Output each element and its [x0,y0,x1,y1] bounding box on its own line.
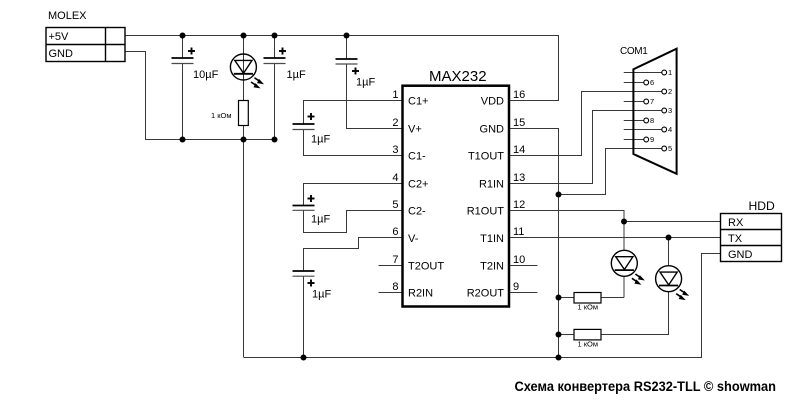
svg-text:2: 2 [668,87,672,96]
svg-text:GND: GND [480,124,505,136]
svg-text:11: 11 [513,226,524,238]
svg-text:3: 3 [392,144,398,156]
svg-text:13: 13 [513,172,525,184]
svg-text:V-: V- [408,233,419,245]
svg-text:T1OUT: T1OUT [468,151,504,163]
svg-text:TX: TX [728,233,743,245]
svg-text:MAX232: MAX232 [429,68,487,85]
svg-text:7: 7 [392,254,398,266]
svg-text:1µF: 1µF [312,289,331,301]
svg-text:C2-: C2- [408,206,426,218]
svg-text:1 кОм: 1 кОм [211,111,232,120]
svg-text:14: 14 [513,144,525,156]
svg-text:1: 1 [392,89,398,101]
svg-text:C1-: C1- [408,151,426,163]
svg-text:GND: GND [728,249,753,261]
svg-text:5: 5 [668,144,672,153]
svg-text:4: 4 [668,125,672,134]
svg-text:6: 6 [392,226,398,238]
svg-text:9: 9 [513,281,519,293]
svg-text:16: 16 [513,89,525,101]
svg-text:12: 12 [513,199,525,211]
svg-text:C2+: C2+ [408,179,429,191]
svg-text:R1OUT: R1OUT [467,206,505,218]
svg-text:V+: V+ [408,124,422,136]
svg-text:GND: GND [49,48,74,60]
svg-text:15: 15 [513,117,525,129]
svg-text:1µF: 1µF [356,77,375,89]
svg-text:R2OUT: R2OUT [467,288,505,300]
svg-text:1µF: 1µF [311,134,330,146]
svg-text:C1+: C1+ [408,96,429,108]
svg-text:1 кОм: 1 кОм [578,340,599,349]
svg-text:HDD: HDD [749,199,776,213]
svg-text:5: 5 [392,199,398,211]
svg-text:1 кОм: 1 кОм [578,303,599,312]
svg-text:1µF: 1µF [311,214,330,226]
svg-text:6: 6 [650,78,654,87]
svg-text:7: 7 [650,97,654,106]
svg-text:R1IN: R1IN [479,179,504,191]
svg-text:1µF: 1µF [287,69,306,81]
svg-text:8: 8 [392,281,398,293]
svg-text:9: 9 [650,135,654,144]
svg-text:Схема конвертера RS232-TLL © s: Схема конвертера RS232-TLL © showman [515,379,777,394]
svg-text:RX: RX [728,217,744,229]
svg-text:2: 2 [392,117,398,129]
svg-text:4: 4 [392,172,398,184]
svg-text:8: 8 [650,116,654,125]
svg-text:MOLEX: MOLEX [48,10,87,22]
svg-text:T1IN: T1IN [480,233,504,245]
svg-text:10µF: 10µF [193,69,219,81]
svg-text:+5V: +5V [49,31,70,43]
svg-text:3: 3 [668,106,672,115]
svg-text:COM1: COM1 [620,46,648,57]
svg-text:T2OUT: T2OUT [408,261,444,273]
svg-text:T2IN: T2IN [480,261,504,273]
svg-text:10: 10 [513,254,525,266]
svg-text:VDD: VDD [481,96,504,108]
svg-text:R2IN: R2IN [408,288,433,300]
svg-text:1: 1 [668,68,672,77]
